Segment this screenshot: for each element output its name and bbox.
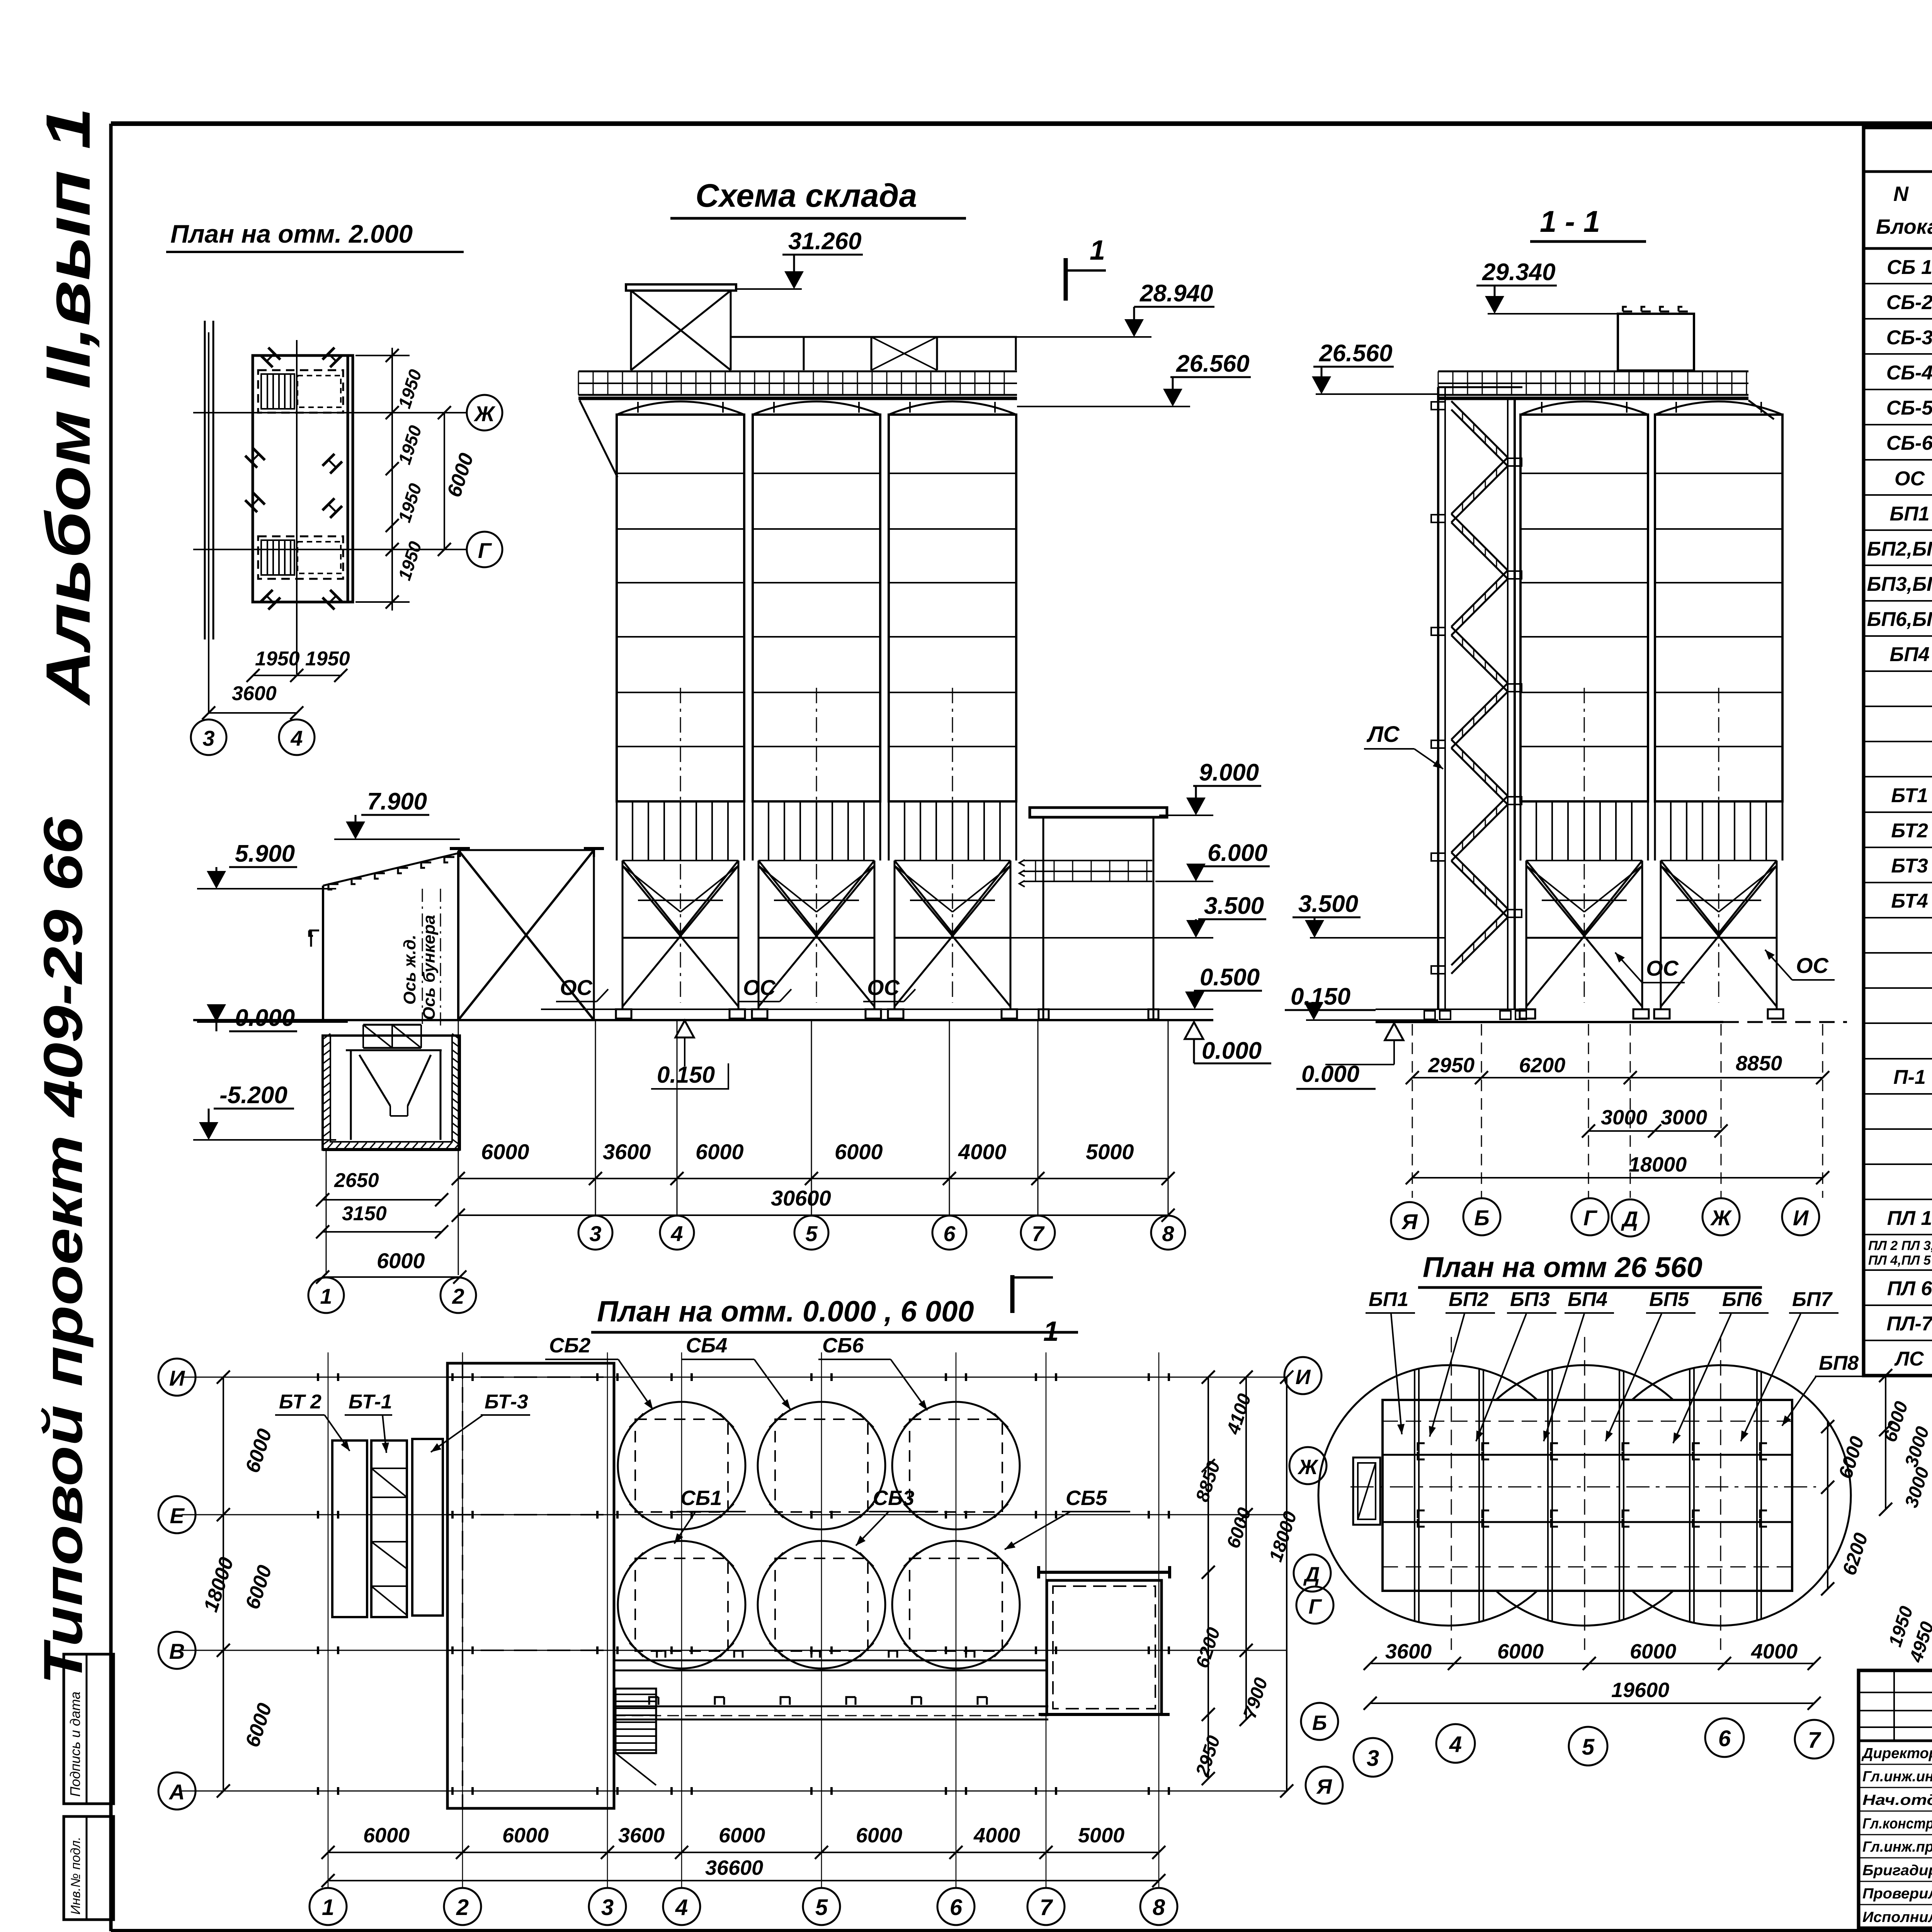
svg-text:БП6,БП7: БП6,БП7: [1867, 608, 1932, 631]
svg-text:Ось бункера: Ось бункера: [420, 915, 439, 1020]
section axis circle И: [1782, 1198, 1819, 1235]
svg-text:7.900: 7.900: [367, 788, 427, 815]
svg-text:4: 4: [670, 1221, 683, 1246]
right dim chain 6000/6200 (26.560): [1821, 1420, 1872, 1595]
silo (section, left): [1520, 401, 1649, 1019]
svg-text:3.500: 3.500: [1298, 891, 1358, 917]
svg-text:6000: 6000: [856, 1824, 902, 1847]
silo circle СБ4 (plan): [758, 1402, 885, 1529]
svg-text:План на отм 26 560: План на отм 26 560: [1423, 1251, 1702, 1283]
svg-text:ПЛ 1: ПЛ 1: [1887, 1207, 1932, 1230]
title block staff rows: [1859, 1741, 1932, 1928]
dim 3150 (bunker): [316, 1202, 448, 1238]
svg-text:БП2: БП2: [1449, 1288, 1488, 1311]
svg-text:ОС: ОС: [1796, 953, 1829, 978]
svg-text:30600: 30600: [771, 1186, 831, 1210]
title: План на отм. 0.000, 6.000: [591, 1295, 1078, 1332]
svg-text:0.150: 0.150: [657, 1062, 715, 1088]
svg-text:6000: 6000: [835, 1139, 883, 1164]
svg-text:7: 7: [1032, 1221, 1045, 1246]
left protruding platform БП1: [1353, 1458, 1380, 1525]
silo СБ5 (elevation): [888, 401, 1017, 1019]
svg-text:3600: 3600: [618, 1824, 665, 1847]
svg-text:5: 5: [1582, 1735, 1595, 1760]
labels БТ2 БТ-1 БТ-3: [275, 1391, 530, 1453]
svg-text:Г: Г: [478, 538, 492, 563]
labels СБ2 СБ4 СБ6: [545, 1334, 927, 1410]
title block outer: [1859, 1670, 1932, 1928]
labels СБ1 СБ3 СБ5: [674, 1486, 1130, 1549]
svg-text:СБ-5: СБ-5: [1886, 397, 1932, 419]
svg-text:6000: 6000: [377, 1248, 425, 1273]
svg-text:БП1: БП1: [1369, 1288, 1408, 1311]
table row ПЛ-7: [1864, 1313, 1932, 1340]
block БТ2 rectangle: [332, 1440, 367, 1617]
underground receiving bunker pit: [323, 1034, 460, 1150]
table row вого насоса: [1864, 996, 1932, 1023]
svg-text:Бригадир: Бригадир: [1862, 1862, 1932, 1879]
bunker funnel: [346, 1050, 442, 1140]
svg-text:Я: Я: [1316, 1775, 1332, 1798]
table row БТ4: [1864, 890, 1932, 918]
svg-text:Ж: Ж: [1297, 1456, 1319, 1479]
svg-text:БП4: БП4: [1568, 1288, 1607, 1311]
table row ПЛ 1: [1864, 1207, 1932, 1235]
svg-text:БП1: БП1: [1889, 503, 1929, 525]
svg-text:1: 1: [322, 1895, 334, 1920]
svg-text:4: 4: [1449, 1732, 1462, 1757]
svg-text:5: 5: [805, 1221, 818, 1246]
elevation dim row 6000/3600/6000/6000/4000/5000: [452, 1139, 1175, 1185]
far right dim chain 3000/3000/1950/4950: [1879, 1369, 1932, 1665]
svg-text:2950: 2950: [1428, 1054, 1475, 1077]
svg-text:Г: Г: [1583, 1206, 1598, 1230]
svg-text:3000: 3000: [1601, 1106, 1647, 1129]
section axis drop lines: [1412, 1024, 1823, 1198]
svg-text:7: 7: [1040, 1895, 1053, 1920]
axis circle 3 (top plan): [191, 719, 226, 755]
plan column axis lines 1-8: [328, 1352, 1159, 1887]
roof railing and X panel: [731, 337, 1017, 370]
section axis circle Г: [1571, 1198, 1609, 1235]
axis circle И (plan left): [158, 1359, 196, 1396]
svg-text:План на отм. 2.000: План на отм. 2.000: [170, 219, 413, 248]
svg-text:БП3,БП5: БП3,БП5: [1867, 573, 1932, 595]
svg-text:В: В: [169, 1639, 185, 1663]
axis circle 7 (elevation): [1021, 1216, 1055, 1250]
svg-text:Альбом II,вып 1: Альбом II,вып 1: [33, 107, 103, 706]
svg-text:И: И: [169, 1366, 185, 1390]
svg-text:Б: Б: [1312, 1711, 1327, 1735]
axis circle В (plan left): [158, 1632, 196, 1669]
elevation dim row 30600: [452, 1186, 1175, 1222]
X braced frame axes 2-3: [450, 849, 604, 1020]
svg-text:6000: 6000: [1497, 1640, 1544, 1663]
svg-text:БТ-1: БТ-1: [349, 1391, 392, 1413]
svg-text:0.000: 0.000: [1202, 1037, 1262, 1064]
svg-text:ЛС: ЛС: [1894, 1348, 1924, 1370]
svg-text:26.560: 26.560: [1319, 340, 1393, 367]
table row БП3,БП5: [1864, 573, 1932, 601]
table row ЛС: [1864, 1348, 1932, 1376]
table row ОС: [1864, 468, 1932, 495]
svg-text:Г: Г: [1308, 1595, 1322, 1618]
main warehouse rectangle: [447, 1363, 614, 1808]
svg-text:СБ-4: СБ-4: [1886, 362, 1932, 384]
table row СБ-5: [1864, 397, 1932, 425]
table row в том числе:: [1864, 1031, 1932, 1059]
axis circle Я (26.560 left): [1306, 1767, 1343, 1804]
svg-text:3150: 3150: [342, 1202, 387, 1225]
svg-text:3: 3: [1367, 1746, 1379, 1771]
truck hatched box bottom: [258, 536, 343, 579]
section ground line: [1376, 1009, 1847, 1022]
silo СБ3 (elevation): [752, 401, 881, 1019]
axis circle 8 (plan bottom): [1140, 1888, 1177, 1925]
svg-text:БТ1: БТ1: [1891, 784, 1928, 807]
table row Площадка для обслуживания: [1864, 1101, 1932, 1129]
platform band lower (plan): [614, 1697, 1048, 1719]
svg-text:1: 1: [320, 1284, 332, 1308]
svg-text:29.340: 29.340: [1482, 259, 1556, 286]
table row БП1: [1864, 503, 1932, 530]
svg-text:Подпись и дата: Подпись и дата: [67, 1692, 83, 1797]
axis circle 6 (26.560 bottom): [1705, 1718, 1744, 1757]
svg-text:3: 3: [589, 1221, 601, 1246]
silo circle СБ5 (plan): [892, 1541, 1020, 1668]
svg-text:БТ2: БТ2: [1891, 820, 1928, 842]
svg-text:6: 6: [950, 1895, 963, 1920]
table row в том числе: [1864, 1172, 1932, 1199]
table row Приемный бункер: [1864, 925, 1932, 953]
railway and bunker axes (dash-dot): [400, 889, 440, 1028]
axis circle А (plan left): [158, 1772, 196, 1810]
svg-text:5000: 5000: [1086, 1139, 1134, 1164]
svg-text:9.000: 9.000: [1199, 759, 1259, 786]
table row БТ2: [1864, 820, 1932, 847]
right small building axes 7-8 (plan): [1039, 1566, 1170, 1714]
section dim row 3000 3000: [1582, 1106, 1728, 1138]
block БТ-3 rectangle: [412, 1439, 443, 1616]
silo (section, right): [1654, 401, 1783, 1019]
section axis circle Я: [1391, 1202, 1428, 1239]
svg-text:7: 7: [1808, 1728, 1821, 1753]
left vertical dim chain 6000x3/18000: [199, 1371, 276, 1798]
axis circle Г: [467, 532, 502, 567]
axis circle 5 (plan bottom): [803, 1888, 840, 1925]
svg-text:Блока: Блока: [1876, 215, 1932, 238]
svg-text:ОС: ОС: [867, 975, 900, 1000]
section axis circle Ж: [1702, 1198, 1740, 1235]
bottom dims (26.560) 3600/6000/6000/4000: [1364, 1640, 1821, 1670]
svg-text:ПЛ 4,ПЛ 5: ПЛ 4,ПЛ 5: [1868, 1253, 1931, 1268]
section mark 1 (top): [1066, 235, 1106, 301]
silo roof platform deck (elevation): [578, 371, 1017, 477]
characteristics table: [1864, 128, 1932, 1376]
svg-text:4000: 4000: [958, 1139, 1007, 1164]
labels БП1-БП7: [1366, 1288, 1838, 1443]
svg-text:Нач.отд: Нач.отд: [1862, 1792, 1932, 1808]
table row СБ-6: [1864, 432, 1932, 460]
silo circle СБ3 (plan): [758, 1541, 885, 1668]
table row ПЛ 6: [1864, 1277, 1932, 1305]
svg-text:ОС: ОС: [743, 975, 776, 1000]
svg-text:БП5: БП5: [1649, 1288, 1689, 1311]
table row СБ 1: [1864, 256, 1932, 284]
axis circle Ж: [467, 395, 502, 430]
svg-text:28.940: 28.940: [1139, 280, 1213, 307]
svg-text:6000: 6000: [481, 1139, 529, 1164]
axis circle 6 (elevation): [932, 1216, 966, 1250]
axis circle 7 (plan bottom): [1027, 1888, 1065, 1925]
plan row axis lines: [182, 1377, 1287, 1791]
bracket marks on platform lines: [1418, 1443, 1767, 1527]
axis circle 2 (elevation): [440, 1277, 476, 1313]
svg-text:БП6: БП6: [1722, 1288, 1762, 1311]
section title 1-1: [1530, 204, 1646, 241]
bottom dim 36600: [321, 1856, 1165, 1887]
silo circle СБ2 (plan): [618, 1402, 745, 1529]
bunker top truss: [363, 1025, 421, 1048]
table row в том числе: [1864, 749, 1932, 777]
svg-text:ОС: ОС: [560, 975, 593, 1000]
svg-text:ПЛ 2 ПЛ 3,: ПЛ 2 ПЛ 3,: [1868, 1238, 1932, 1253]
silo СБ1 (elevation): [616, 401, 745, 1019]
roof tower 1 with X brace: [626, 284, 736, 370]
svg-text:1: 1: [1090, 235, 1105, 266]
svg-text:Гл.констр.: Гл.констр.: [1862, 1816, 1932, 1832]
elevation mark 0.000 (section): [1296, 1023, 1403, 1089]
svg-text:БТ4: БТ4: [1891, 890, 1928, 912]
svg-text:3600: 3600: [1385, 1640, 1432, 1663]
pedestal line 0.150: [541, 1009, 1213, 1010]
svg-text:5: 5: [815, 1895, 828, 1920]
dim 6000 axes 1-2: [316, 1248, 466, 1284]
svg-text:2: 2: [456, 1895, 469, 1920]
axis intersection tick marks: [318, 1373, 1169, 1795]
axis circle 5 (elevation): [794, 1216, 828, 1250]
axis circle Г (26.560 left): [1296, 1587, 1333, 1624]
svg-text:19600: 19600: [1611, 1679, 1669, 1702]
svg-text:Проверил: Проверил: [1862, 1886, 1932, 1902]
I-beam column marks: [245, 348, 342, 610]
table row СБ-4: [1864, 362, 1932, 389]
axis circle 3 (elevation): [578, 1216, 612, 1250]
svg-text:ОС: ОС: [1895, 468, 1925, 490]
ground line 0.000 level: [193, 1019, 1213, 1021]
0.150 boxed label: [651, 1020, 728, 1089]
svg-text:СБ1: СБ1: [680, 1486, 722, 1510]
table row П-1: [1864, 1066, 1932, 1094]
table row БП2,БП8: [1864, 538, 1932, 565]
title: План на отм 26.560: [1418, 1251, 1762, 1287]
axis circle 4 (top plan): [279, 719, 315, 755]
block БТ-1 rectangle with diagonals: [371, 1440, 407, 1617]
table row БТ1: [1864, 784, 1932, 812]
svg-text:18000: 18000: [1629, 1153, 1687, 1176]
stair tower ЛС: [1431, 387, 1522, 1009]
svg-text:БП7: БП7: [1792, 1288, 1833, 1311]
axis circle 2 (plan bottom): [444, 1888, 481, 1925]
svg-text:1950: 1950: [255, 648, 300, 670]
svg-text:3000: 3000: [1661, 1106, 1707, 1129]
svg-text:6000: 6000: [363, 1824, 410, 1847]
svg-text:СБ6: СБ6: [822, 1334, 864, 1357]
right dim 6000: [438, 406, 478, 556]
svg-text:8850: 8850: [1736, 1052, 1782, 1075]
receiving shed over railway (axes 1-2): [309, 851, 458, 1020]
svg-text:6: 6: [1718, 1726, 1731, 1751]
svg-text:СБ2: СБ2: [549, 1334, 590, 1357]
svg-text:СБ4: СБ4: [686, 1334, 727, 1357]
svg-text:0.000: 0.000: [1301, 1061, 1359, 1087]
penthouse on roof: [1618, 307, 1694, 371]
svg-text:ПЛ 6: ПЛ 6: [1887, 1277, 1932, 1300]
svg-text:36600: 36600: [705, 1856, 763, 1879]
svg-text:3600: 3600: [232, 682, 277, 705]
svg-text:6000: 6000: [502, 1824, 549, 1847]
svg-text:2: 2: [452, 1284, 464, 1308]
svg-text:Ж: Ж: [1710, 1206, 1732, 1230]
axis lines Ж and Г: [193, 332, 468, 713]
svg-text:1950: 1950: [305, 648, 350, 670]
svg-text:6200: 6200: [1519, 1054, 1565, 1077]
svg-text:Исполнил: Исполнил: [1862, 1909, 1932, 1925]
section dim row 2950/6200/8850: [1406, 1052, 1829, 1084]
axis circle 4 (plan bottom): [663, 1888, 700, 1925]
svg-text:0.000: 0.000: [235, 1005, 295, 1031]
axis circle 4 (26.560 bottom): [1436, 1724, 1475, 1763]
svg-text:Б: Б: [1474, 1206, 1490, 1230]
svg-text:31.260: 31.260: [788, 228, 862, 255]
svg-text:4000: 4000: [1751, 1640, 1798, 1663]
silo circle СБ6 (plan): [892, 1402, 1020, 1529]
axis circle 1 (plan bottom): [310, 1888, 347, 1925]
plan rectangle walls: [253, 355, 353, 602]
svg-text:Д: Д: [1621, 1207, 1638, 1231]
bottom dim 19600: [1364, 1679, 1821, 1710]
svg-text:4000: 4000: [973, 1824, 1020, 1847]
axis circle 3 (plan bottom): [589, 1888, 626, 1925]
axis dashed verticals (26.560 plan): [1451, 1337, 1721, 1650]
axis circle Б (26.560 left): [1301, 1703, 1338, 1740]
section mark 1 (bottom): [1012, 1275, 1059, 1347]
ОС labels (section): [1615, 950, 1835, 983]
svg-text:БП2,БП8: БП2,БП8: [1867, 538, 1932, 560]
dim 2650 (bunker): [316, 1169, 448, 1206]
axis circle 7 (26.560 bottom): [1795, 1720, 1833, 1759]
svg-text:Директор: Директор: [1861, 1745, 1932, 1762]
three overlapping silo circles: [1318, 1365, 1851, 1626]
axis circle 1 (elevation): [308, 1277, 344, 1313]
svg-text:6.000: 6.000: [1207, 840, 1267, 866]
axis circle 4 (elevation): [660, 1216, 694, 1250]
svg-text:8: 8: [1162, 1221, 1174, 1246]
table row Надсилосная галерея: [1864, 679, 1932, 706]
section axis circle Б: [1463, 1198, 1500, 1235]
svg-text:П-1: П-1: [1893, 1066, 1926, 1088]
title: Схема склада: [670, 177, 966, 218]
svg-text:26.560: 26.560: [1176, 350, 1250, 377]
table row БТ3: [1864, 855, 1932, 883]
svg-text:ЛС: ЛС: [1366, 722, 1400, 747]
svg-text:ПЛ-7: ПЛ-7: [1886, 1313, 1932, 1335]
svg-text:0.500: 0.500: [1200, 964, 1260, 991]
svg-text:Гл.инж.ин.: Гл.инж.ин.: [1862, 1769, 1932, 1785]
svg-text:План на отм. 0.000 , 6 000: План на отм. 0.000 , 6 000: [597, 1295, 974, 1328]
svg-text:3: 3: [202, 726, 214, 750]
label БП8: [1782, 1352, 1862, 1426]
svg-text:Типовой проект 409-29 66: Типовой проект 409-29 66: [32, 817, 94, 1685]
svg-text:6000: 6000: [696, 1139, 744, 1164]
right vertical dim chain 1950x4: [355, 348, 425, 611]
table row Приемное устройство: [1864, 714, 1932, 742]
ОС support labels (elevation): [556, 975, 915, 1002]
svg-text:N: N: [1893, 182, 1909, 206]
svg-text:Ж: Ж: [473, 401, 496, 426]
table row ПЛ2ПЛ3 ПЛ4ПЛ5: [1864, 1238, 1932, 1270]
svg-text:Инв.№ подл.: Инв.№ подл.: [68, 1837, 83, 1915]
stairs (plan): [616, 1689, 656, 1785]
axis circle И (26.560 left): [1284, 1357, 1321, 1394]
bottom dim row (plan) 6000x2/3600/6000x2/4000/5000: [321, 1824, 1165, 1859]
svg-text:Ось ж.д.: Ось ж.д.: [400, 935, 419, 1005]
svg-text:3.500: 3.500: [1204, 893, 1264, 919]
axis circle 8 (elevation): [1151, 1216, 1185, 1250]
title block top mini grid: [1859, 1670, 1932, 1928]
svg-text:3600: 3600: [603, 1139, 651, 1164]
svg-text:4: 4: [675, 1895, 688, 1920]
svg-text:СБ-3: СБ-3: [1886, 327, 1932, 349]
bottom dim 1950 1950: [247, 648, 350, 682]
table row БП6,БП7: [1864, 608, 1932, 636]
svg-text:Д: Д: [1303, 1563, 1320, 1586]
platform band upper (plan): [614, 1651, 1047, 1670]
svg-text:Я: Я: [1401, 1209, 1418, 1234]
chord double lines: [1415, 1368, 1761, 1623]
svg-text:5000: 5000: [1078, 1824, 1124, 1847]
svg-text:ОС: ОС: [1646, 956, 1679, 980]
table row БП4: [1864, 643, 1932, 671]
axis circle 3 (26.560 bottom): [1354, 1738, 1392, 1777]
svg-text:Е: Е: [170, 1503, 185, 1528]
svg-text:6000: 6000: [1630, 1640, 1676, 1663]
svg-text:Гл.инж.пр.: Гл.инж.пр.: [1862, 1839, 1932, 1855]
axis circle 6 (plan bottom): [937, 1888, 975, 1925]
svg-text:4: 4: [290, 726, 303, 750]
silo circle СБ1 (plan): [618, 1541, 745, 1668]
svg-text:СБ3: СБ3: [873, 1486, 914, 1510]
svg-text:1 - 1: 1 - 1: [1540, 204, 1600, 238]
svg-text:6: 6: [943, 1221, 956, 1246]
table row СБ-2: [1864, 291, 1932, 319]
svg-text:2650: 2650: [334, 1169, 379, 1192]
elevation axis drop lines: [326, 1020, 1168, 1275]
svg-text:БП8: БП8: [1819, 1352, 1859, 1374]
table row боковых разгружателеи: [1864, 1137, 1932, 1164]
rail track double line: [205, 321, 213, 639]
table row СБ-3: [1864, 327, 1932, 354]
svg-text:Схема склада: Схема склада: [696, 177, 917, 214]
svg-text:6000: 6000: [719, 1824, 765, 1847]
right vertical dim strips (plan): [1192, 1371, 1301, 1798]
axis circle 5 (26.560 bottom): [1569, 1727, 1607, 1765]
bottom dim 3600: [202, 682, 303, 719]
svg-text:БТ-3: БТ-3: [485, 1391, 528, 1413]
svg-text:А: А: [168, 1780, 185, 1804]
section axis circle Д: [1612, 1199, 1649, 1236]
margin stamp boxes: Подпись и дата / Инв № подл: [64, 1654, 114, 1920]
